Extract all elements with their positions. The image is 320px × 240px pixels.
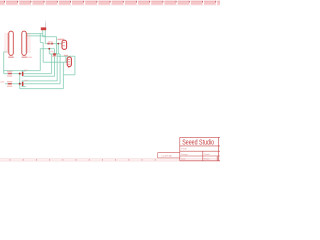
wire top jog horizontal — [43, 36, 57, 38]
wire h70 — [4, 70, 41, 72]
svg-text:Vision:: Vision: — [204, 159, 210, 161]
wire j1 bottom pin — [4, 51, 7, 53]
wire h48 — [40, 48, 54, 50]
net label row B left — [0, 81, 4, 82]
junction node B — [19, 83, 21, 85]
transistor Q1 label — [58, 39, 65, 41]
wire net2 from J2 to battery right — [26, 35, 45, 37]
frame top ruler dividers — [4, 1, 217, 5]
wire row y76.2 — [23, 75, 54, 77]
wire base row to Q1 — [45, 43, 62, 45]
wire v63.4 — [62, 62, 64, 89]
wire C2 top plate row — [22, 80, 58, 82]
wires (teal) — [4, 30, 75, 89]
title block logo text — [182, 139, 214, 147]
frame top ruler band — [0, 1, 220, 6]
title block outline — [180, 137, 220, 160]
wire net1 from J2 to battery left — [26, 33, 42, 35]
wire long mid vertical — [42, 43, 44, 63]
connector J1 pin labels — [4, 33, 6, 52]
wire battery right stub — [44, 30, 46, 43]
wire row A y73.6 — [4, 73, 52, 75]
wire v74.9 — [74, 56, 76, 75]
wire h53.9 — [49, 53, 60, 55]
wire C1 top plate — [22, 70, 26, 72]
wire v60.1 — [59, 54, 61, 84]
wire Q1 branch down — [57, 44, 59, 54]
wire row B y83.8 — [5, 83, 60, 85]
junction node A — [19, 73, 21, 75]
wire C2 lead — [22, 81, 24, 87]
connector J2 pin labels — [28, 33, 30, 52]
frame bottom ruler dividers — [10, 159, 156, 161]
transistor Q1 — [62, 40, 67, 49]
frame bottom ruler band — [0, 158, 220, 161]
battery red plate — [41, 27, 46, 30]
wire Q2 base vertical — [65, 56, 67, 62]
svg-text:TITLE:: TITLE: — [181, 148, 187, 150]
connector J1 — [9, 31, 14, 55]
junction dot base row — [57, 43, 59, 45]
connector J2 — [22, 31, 27, 55]
connector J2 pins — [26, 34, 28, 52]
wire C2 bottom plate — [22, 86, 26, 88]
wire h56.2 — [57, 55, 75, 57]
svg-text:CC-BY-SA: CC-BY-SA — [161, 154, 172, 157]
connector J1 designator — [8, 57, 14, 59]
transistor Q2 — [67, 57, 71, 67]
connector J1 pins — [7, 34, 9, 52]
capacitor C1 — [22, 72, 24, 76]
wire v54.5 — [54, 49, 56, 76]
resistor R1 — [47, 43, 49, 45]
capacitor C2 — [22, 82, 24, 86]
svg-text:Check:: Check: — [204, 154, 211, 156]
wire h74.8 under Q2 — [63, 74, 75, 76]
wire jog down — [56, 37, 58, 54]
transistor Q2 emitter mark — [68, 66, 71, 68]
wire small u left — [39, 34, 41, 43]
transistor Q2 label — [64, 55, 68, 56]
wire v57.2 — [56, 54, 58, 81]
wire battery left stub — [42, 30, 44, 37]
wire C1 lead — [22, 71, 24, 77]
battery grey lead — [44, 20, 47, 23]
resistor R2 — [8, 73, 12, 75]
wire small u bottom — [40, 42, 43, 44]
svg-text:Date:: Date: — [181, 158, 186, 161]
wire v51.6 — [51, 54, 53, 74]
connector J2 designator — [22, 57, 28, 59]
wire v3.7 — [3, 52, 5, 74]
wire bottom row y88.6 — [20, 88, 64, 90]
junction dot — [48, 48, 50, 50]
wire v49 — [48, 49, 50, 54]
resistor R3 — [8, 83, 12, 85]
junction blob with label — [53, 53, 56, 56]
svg-text:Seeed Studio: Seeed Studio — [182, 139, 214, 147]
svg-text:Design:: Design: — [181, 154, 188, 156]
wire cap link vertical — [19, 74, 21, 89]
wire Q2 base row — [43, 61, 67, 63]
license box — [158, 153, 180, 158]
wire v40 — [39, 49, 41, 71]
